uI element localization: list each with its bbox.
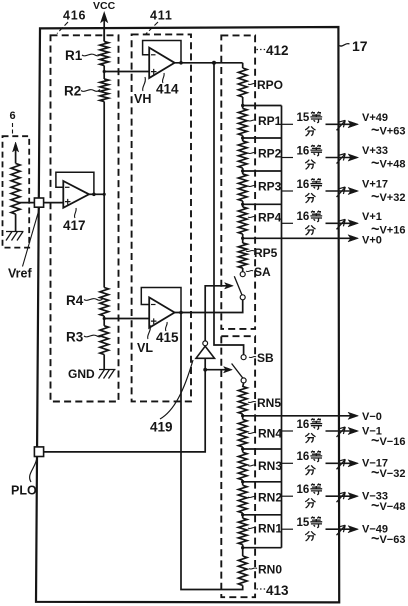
svg-text:+: +: [65, 197, 71, 209]
svg-text:16: 16: [297, 179, 310, 191]
node RN3/RN2 rung: [241, 480, 282, 483]
svg-text:413: 413: [266, 583, 289, 598]
svg-text:R2: R2: [64, 84, 81, 99]
wire VL long run down to RN0 bottom: [181, 313, 243, 590]
tap group output V−49~V−63: stub, 15-division label, bus arrow: [282, 517, 406, 547]
op-amp 417: [56, 172, 96, 208]
svg-text:RN5: RN5: [257, 396, 281, 410]
switch SA: [234, 265, 271, 300]
resistor RN5: [238, 386, 281, 415]
label 17: [340, 38, 368, 54]
label 417: [63, 208, 86, 233]
label 416: [57, 9, 86, 34]
wire Vref square to 417 + input: [44, 202, 64, 204]
svg-text:PLO: PLO: [11, 484, 37, 498]
svg-text:R4: R4: [66, 293, 84, 308]
svg-text:~V−48: ~V−48: [371, 498, 405, 514]
svg-text:RN0: RN0: [258, 563, 282, 577]
wire VH tap to op-amp 414 + input: [104, 71, 149, 73]
svg-text:~V+32: ~V+32: [371, 189, 405, 205]
svg-text:RN4: RN4: [258, 427, 282, 441]
op-amp 415: [141, 288, 183, 329]
node RP3/RP4 rung: [241, 203, 282, 206]
box 17 outer block outline: [36, 27, 339, 602]
tap group output V−1~V−16: stub, 16-division label, bus arrow: [282, 418, 406, 448]
svg-text:416: 416: [63, 9, 86, 23]
svg-text:17: 17: [352, 38, 368, 54]
node PLO square terminal: [34, 447, 43, 457]
svg-text:417: 417: [63, 218, 86, 233]
svg-text:V−0: V−0: [362, 411, 382, 423]
svg-text:412: 412: [266, 43, 289, 58]
svg-text:~V+48: ~V+48: [371, 156, 405, 172]
wire 414 output down to SB top contact: [214, 63, 244, 355]
svg-text:RP1: RP1: [258, 114, 282, 128]
node VL label: [137, 325, 153, 355]
node VH label: [134, 77, 151, 106]
wire/arrow output V+0 (node RP4/RP5): [241, 234, 382, 246]
wire VCC to R1 string: [103, 28, 105, 42]
svg-text:SB: SB: [257, 351, 274, 365]
label 414: [156, 73, 179, 97]
node RP2/RP3 rung: [241, 169, 282, 172]
wire 417 output to divider mid node: [89, 193, 104, 195]
wire R2 to mid node to R4: [103, 102, 106, 288]
resistor RN4: [238, 416, 282, 449]
node RPO/RP1 rung: [241, 104, 282, 107]
label 413: [257, 583, 290, 598]
ground (Vref box): [6, 232, 24, 241]
tap group output V+33~V+48: stub, 16-division label, bus arrow: [282, 145, 406, 172]
switch SB: [232, 351, 274, 383]
svg-text:VCC: VCC: [93, 0, 116, 12]
svg-text:+: +: [151, 67, 157, 79]
svg-text:411: 411: [150, 9, 173, 23]
svg-text:15: 15: [297, 112, 310, 124]
svg-text:RP2: RP2: [258, 147, 282, 161]
tap group output V+1~V+16: stub, 16-division label, bus arrow: [282, 211, 406, 238]
svg-text:RN2: RN2: [258, 491, 282, 505]
wire R1-R2 (node VH): [103, 66, 106, 80]
dashed block 6 (Vref source): [3, 136, 30, 247]
potentiometer (Vref divider): [11, 142, 20, 232]
svg-text:Vref: Vref: [8, 267, 32, 281]
tap group output V−33~V−48: stub, 16-division label, bus arrow: [282, 484, 406, 514]
node Vref square terminal: [34, 198, 43, 207]
wire R4-R3 (node VL): [103, 316, 106, 326]
tap group output V−17~V−32: stub, 16-division label, bus arrow: [282, 451, 406, 481]
resistor RP0: [238, 68, 283, 106]
svg-text:R1: R1: [65, 48, 83, 63]
resistor R3: [66, 326, 109, 355]
resistor R4: [66, 288, 109, 317]
wire 414 output to RP ladder top: [175, 61, 243, 65]
power VCC: [93, 0, 116, 42]
resistor R2: [64, 79, 109, 102]
wire RP ladder top: [242, 63, 244, 68]
svg-text:16: 16: [297, 211, 310, 223]
resistor RP3: [238, 171, 281, 204]
svg-text:~V−16: ~V−16: [371, 433, 405, 449]
svg-text:+: +: [151, 316, 157, 328]
node RN1/RN0 rung: [241, 546, 282, 549]
resistor RP4: [238, 204, 281, 238]
node RP1/RP2 rung: [241, 136, 282, 139]
svg-text:V+0: V+0: [362, 234, 382, 246]
wire R3 to GND: [103, 355, 105, 370]
svg-text:~V−63: ~V−63: [371, 531, 405, 547]
resistor RP1: [238, 106, 281, 139]
svg-text:~V+63: ~V+63: [371, 122, 405, 138]
resistor R1: [65, 42, 109, 66]
svg-text:GND: GND: [68, 367, 95, 381]
svg-text:VH: VH: [134, 92, 151, 106]
resistor RN3: [238, 449, 282, 482]
svg-text:16: 16: [297, 451, 310, 463]
wire 415 output to switch SA bottom contact: [175, 300, 243, 313]
svg-text:415: 415: [156, 330, 179, 345]
svg-text:RN1: RN1: [258, 522, 282, 536]
svg-text:16: 16: [297, 419, 310, 431]
svg-text:~V−32: ~V−32: [371, 465, 405, 481]
svg-text:RP3: RP3: [258, 180, 282, 194]
wire 419 output to SA control (arrow): [205, 283, 233, 341]
svg-text:419: 419: [150, 420, 173, 435]
node RN4/RN3 rung: [241, 447, 282, 450]
tap box right rail: [281, 106, 283, 548]
dashed block 413 (negative ladder): [221, 336, 255, 597]
dashed block 411: [132, 34, 191, 401]
wire SB bottom to RN5: [242, 383, 245, 387]
ground GND (main divider): [68, 367, 116, 381]
dashed block 412 (positive ladder): [221, 35, 255, 329]
resistor RP5: [238, 238, 277, 271]
svg-text:16: 16: [297, 484, 310, 496]
svg-text:414: 414: [156, 82, 179, 97]
label 419: [150, 360, 193, 435]
wire VL tap to op-amp 415 + input: [104, 318, 149, 320]
op-amp 414: [143, 41, 183, 79]
resistor RN2: [238, 482, 282, 515]
node RN2/RN1 rung: [241, 513, 282, 516]
label 412: [257, 43, 289, 58]
inverter 419: [196, 341, 215, 358]
wire pot wiper to Vref node square: [18, 202, 34, 204]
svg-text:VL: VL: [137, 341, 153, 355]
svg-text:15: 15: [297, 517, 310, 529]
svg-text:R3: R3: [66, 330, 84, 345]
resistor RN1: [238, 515, 282, 548]
tap group output V+17~V+32: stub, 16-division label, bus arrow: [282, 178, 406, 205]
resistor RN0: [238, 548, 282, 586]
label 6: [10, 110, 16, 134]
label 411: [146, 9, 173, 34]
svg-text:RP4: RP4: [258, 211, 282, 225]
label Vref: [8, 208, 40, 281]
svg-text:RP5: RP5: [254, 246, 278, 260]
label 415: [156, 322, 179, 345]
resistor RP2: [238, 138, 281, 171]
svg-text:6: 6: [10, 110, 16, 122]
wire PLO to 419 input, branch to SB control (arrow): [44, 358, 233, 452]
svg-text:RN3: RN3: [258, 459, 282, 473]
svg-text:RPO: RPO: [257, 78, 283, 92]
tap group output V+49~V+63: stub, 15-division label, bus arrow: [282, 112, 406, 139]
dashed block 416: [51, 35, 119, 401]
svg-text:SA: SA: [254, 265, 271, 279]
label PLO: [11, 457, 37, 498]
svg-text:16: 16: [297, 145, 310, 157]
wire/arrow output V-0 (node RN5/RN4): [241, 411, 382, 423]
